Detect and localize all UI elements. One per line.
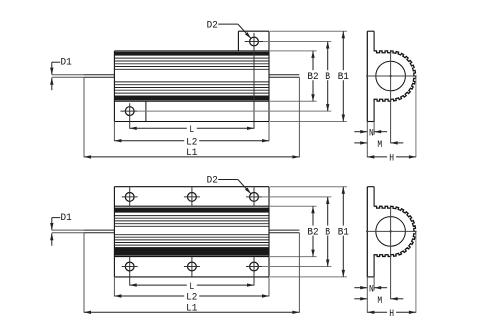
right lead wire: [269, 230, 299, 233]
svg-text:M: M: [377, 295, 382, 307]
extension line from top-right hole to dim B: [262, 196, 331, 198]
svg-text:M: M: [377, 139, 382, 151]
dimension M (flange face to core centre): [354, 139, 403, 151]
flange centre line to dim B: [137, 110, 331, 112]
svg-text:B1: B1: [338, 71, 349, 83]
svg-text:L1: L1: [186, 302, 197, 314]
top flange hole 1: [122, 187, 138, 206]
label D2 with leader to hole: [207, 175, 251, 194]
bottom flange hole 1: [122, 257, 138, 285]
bottom mounting flange strip: [114, 101, 269, 121]
left lead wire: [84, 230, 114, 233]
svg-text:D1: D1: [61, 57, 72, 69]
side view vertical centre line: [390, 207, 392, 300]
svg-text:B2: B2: [307, 71, 318, 83]
dimension D1 (lead diameter): [50, 57, 72, 91]
svg-text:H: H: [389, 308, 394, 320]
bottom flange hole 2: [184, 257, 200, 277]
hole D2 in top-right tab: [245, 33, 263, 129]
side view horizontal centre line: [366, 230, 417, 232]
side view finned housing profile (toothed): [374, 206, 416, 256]
top flange hole 2: [184, 187, 200, 206]
side view vertical centre line: [390, 51, 392, 143]
label D2 with leader to hole: [207, 19, 251, 38]
dimension L1 (overall length): [84, 302, 299, 314]
dimension L (hole spacing): [130, 280, 254, 292]
svg-text:L: L: [189, 124, 194, 136]
dimension B1 (flange height): [335, 187, 351, 277]
svg-text:N: N: [369, 127, 374, 139]
resistor body (finned aluminum housing, front view, 50W type): [114, 51, 269, 101]
resistor body (finned aluminum housing, front view, 100W type): [114, 206, 269, 256]
bottom mounting flange strip: [114, 257, 269, 277]
extension lines for L2 and L1: [113, 122, 115, 141]
left lead wire: [84, 75, 114, 78]
dimension B2 (body height): [305, 51, 321, 101]
extension line from bottom-right hole to dim B: [262, 266, 331, 268]
extension lines for L2 and L1: [113, 277, 115, 296]
extension lines body/flange edges to B dims: [270, 50, 317, 52]
dimension D1 (lead diameter): [50, 212, 72, 246]
dimension L2 (body length): [114, 136, 269, 149]
extension lines body/flange edges to B dims: [270, 205, 317, 207]
dimension B2 (body height): [305, 206, 321, 256]
top flange hole 3 (D2): [246, 187, 262, 206]
svg-text:D2: D2: [207, 175, 218, 187]
svg-text:H: H: [389, 153, 394, 165]
svg-text:B1: B1: [338, 226, 349, 238]
side view extension lines for N M H: [366, 277, 368, 313]
left lead witness lines for D1: [52, 230, 84, 233]
dimension L1 (overall length): [84, 147, 299, 159]
dimension B1 (flange height): [335, 31, 351, 121]
extension line from tab hole to dim B: [263, 41, 331, 43]
side view resistor core circle: [376, 61, 406, 91]
side view finned housing profile (toothed): [374, 51, 416, 101]
side view horizontal centre line: [366, 75, 417, 77]
dimension L (hole spacing): [130, 124, 254, 136]
side view mounting flange plate: [367, 187, 374, 277]
side view resistor core circle: [376, 217, 406, 247]
side view extension lines for N M H: [366, 122, 368, 158]
svg-text:B2: B2: [307, 226, 318, 238]
hole D2 in bottom-left ear: [120, 103, 137, 129]
dimension B (hole spacing vertical): [323, 197, 332, 267]
right lead wire: [269, 75, 299, 78]
side view mounting flange plate: [367, 31, 374, 121]
dimension L2 (body length): [114, 291, 269, 304]
dimension M (flange face to core centre): [354, 295, 403, 307]
svg-text:L1: L1: [186, 147, 197, 159]
svg-text:B: B: [325, 71, 330, 83]
left lead witness lines for D1: [52, 75, 84, 78]
dimension B (hole spacing vertical): [323, 42, 332, 112]
svg-text:N: N: [369, 283, 374, 295]
svg-text:D1: D1: [61, 212, 72, 224]
mounting tab (top-right ear of flange): [238, 31, 269, 51]
dimension N (flange thickness): [354, 127, 387, 139]
svg-text:B: B: [325, 226, 330, 238]
dimension H (overall depth): [367, 152, 416, 164]
svg-text:D2: D2: [207, 19, 218, 31]
dimension N (flange thickness): [354, 283, 387, 295]
dimension H (overall depth): [367, 308, 416, 320]
top mounting flange strip: [114, 187, 269, 207]
bottom flange hole 3: [246, 257, 262, 285]
